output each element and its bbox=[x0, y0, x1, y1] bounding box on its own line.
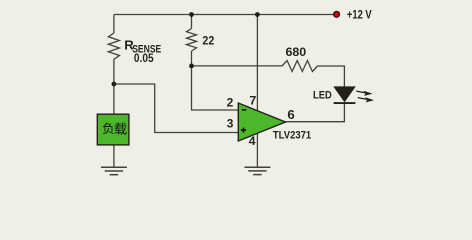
svg-text:LED: LED bbox=[313, 89, 332, 101]
svg-text:680: 680 bbox=[286, 46, 307, 59]
svg-text:7: 7 bbox=[249, 94, 256, 108]
svg-text:3: 3 bbox=[227, 117, 234, 131]
svg-text:TLV2371: TLV2371 bbox=[273, 129, 311, 141]
svg-text:6: 6 bbox=[287, 107, 294, 122]
svg-text:4: 4 bbox=[249, 134, 256, 148]
svg-text:2: 2 bbox=[227, 95, 234, 109]
svg-text:0.05: 0.05 bbox=[134, 52, 154, 65]
svg-text:22: 22 bbox=[202, 34, 214, 47]
svg-text:+12 V: +12 V bbox=[347, 8, 372, 21]
